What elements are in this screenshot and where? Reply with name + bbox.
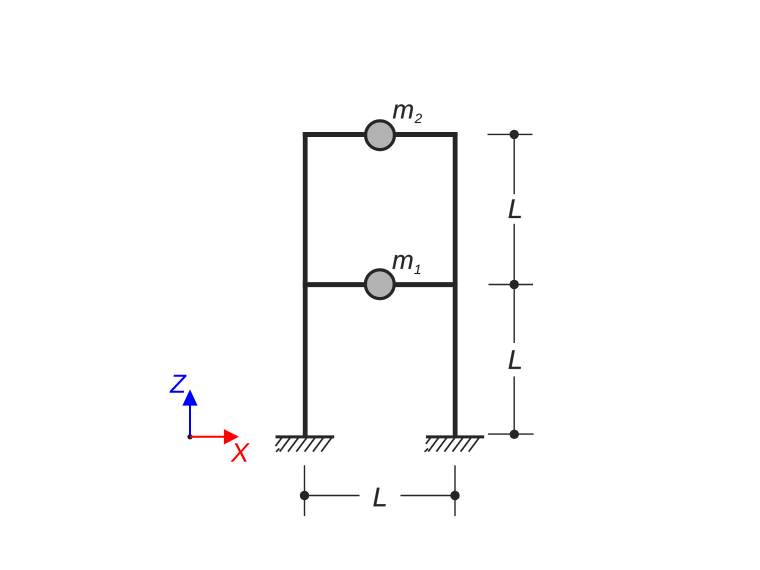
support left: ground line bbox=[276, 435, 335, 438]
dimension bottom: label L bbox=[373, 488, 385, 507]
axis Z label bbox=[170, 375, 187, 393]
support left: hatching bbox=[276, 438, 332, 452]
mass m2 (node circle) bbox=[366, 121, 395, 150]
label m1: letter m bbox=[393, 255, 413, 269]
dimension right: dot bottom bbox=[510, 430, 519, 439]
label m1: subscript 1 bbox=[414, 265, 420, 274]
axis Z arrowhead bbox=[182, 389, 197, 405]
axis Z line bbox=[189, 405, 191, 437]
dimension right: tick bottom bbox=[488, 433, 534, 435]
dimension right: tick middle bbox=[489, 284, 534, 286]
beam top bbox=[303, 132, 458, 137]
dimension right: segment upper bbox=[513, 134, 515, 194]
dimension right: dot middle bbox=[510, 280, 519, 289]
dimension bottom: dot left bbox=[300, 491, 309, 500]
dimension right: segment lower bbox=[513, 376, 515, 434]
dimension right: dot top bbox=[510, 130, 519, 139]
axis origin dot bbox=[187, 434, 192, 439]
axis X arrowhead bbox=[224, 429, 239, 444]
mass m1 (node circle) bbox=[365, 270, 394, 299]
dimension right: label L upper bbox=[509, 199, 521, 218]
label m2: subscript 2 bbox=[415, 114, 422, 123]
support right: ground line bbox=[426, 435, 484, 438]
dimension bottom: tick left bbox=[304, 465, 306, 516]
axis X label bbox=[230, 443, 249, 462]
label m2: letter m bbox=[393, 104, 413, 118]
dimension bottom: segment right bbox=[401, 495, 456, 497]
dimension right: label L lower bbox=[509, 350, 521, 369]
dimension bottom: tick right bbox=[454, 465, 456, 516]
beam middle bbox=[303, 282, 458, 287]
dimension bottom: dot right bbox=[450, 491, 459, 500]
dimension bottom: segment left bbox=[305, 495, 360, 497]
column right bbox=[453, 132, 458, 437]
dimension right: tick top bbox=[488, 133, 533, 135]
column left bbox=[303, 132, 308, 437]
support right: hatching bbox=[425, 438, 480, 452]
dimension right: segment middle bbox=[513, 224, 515, 343]
axis X line bbox=[190, 436, 224, 438]
